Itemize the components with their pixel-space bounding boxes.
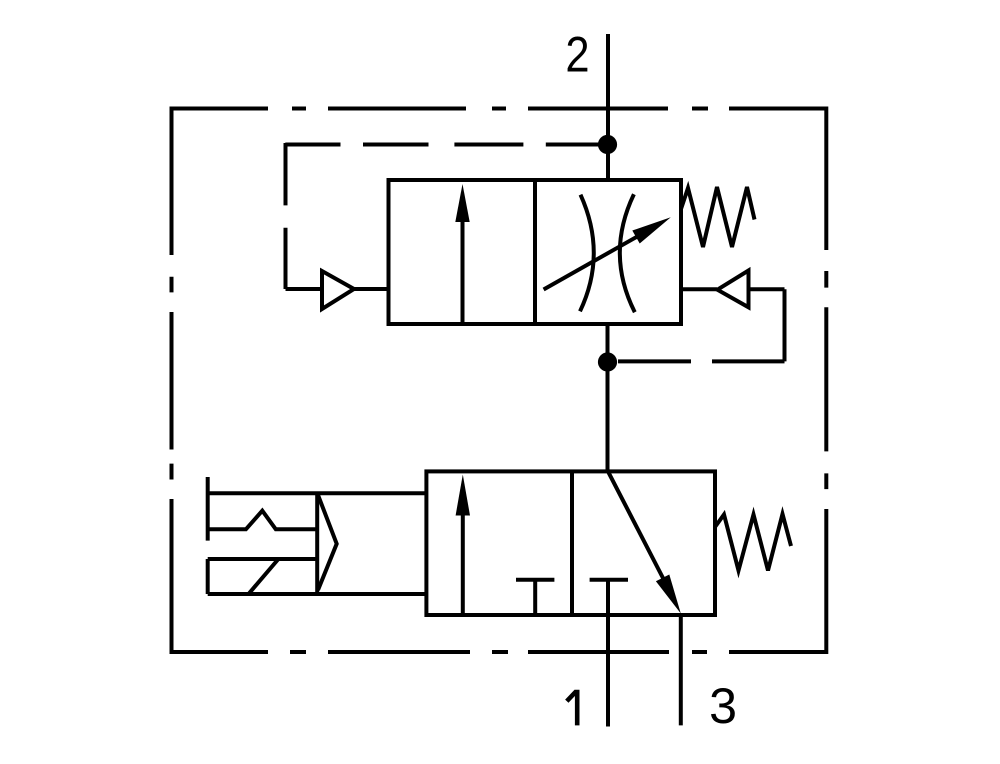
svg-text:3: 3 [709, 677, 737, 734]
pilot actuator channel line with peak [208, 511, 318, 530]
enclosure left edge (dash-dot) [170, 107, 174, 655]
port 2 line (top) [606, 34, 610, 180]
valve V1 throttle arcs [580, 194, 635, 312]
pilot actuator rail bottom [208, 592, 427, 596]
valve V2 divider [570, 471, 574, 615]
pilot line dashed vertical (left) [284, 143, 288, 289]
pilot actuator rail top [208, 491, 427, 495]
junction dot node A (on port 2 pilot tap) [598, 135, 617, 154]
pilot actuator channel line 3 [208, 557, 318, 561]
pilot dashed line to node B [618, 359, 785, 363]
valve V2 exhaust arrow (diagonal 2 to 3) [608, 471, 664, 580]
pilot actuator chevron bar [315, 493, 319, 594]
enclosure top edge (dash-dot) [172, 107, 826, 111]
port 3 line [679, 615, 683, 725]
pilot actuator chevron [318, 495, 337, 590]
valve V2 right cell blocked port T [590, 578, 628, 582]
enclosure bottom edge (dash-dot) [172, 650, 826, 654]
valve V2 left cell blocked port T [516, 580, 554, 615]
junction dot node B [598, 352, 617, 371]
valve V2 left cell flow arrow (up) [461, 508, 465, 613]
valve V2 body (3/2 valve) [426, 471, 715, 615]
wire triangle to corner [749, 289, 785, 361]
spring S1 (valve V1 return spring) [681, 187, 755, 247]
port 1 line [606, 580, 610, 727]
wire valve V1 right pilot [681, 287, 717, 291]
enclosure right edge (dash-dot) [824, 107, 828, 655]
wire port 2 between valves [606, 324, 610, 471]
valve V1 divider [533, 180, 537, 324]
pilot actuator left vertical upper [206, 477, 210, 541]
valve V1 adjustment arrow (diagonal) [544, 235, 640, 290]
pilot actuator left vertical lower [206, 559, 210, 594]
pilot triangle right (points left) [717, 271, 748, 308]
label port 1 [567, 690, 577, 726]
pilot triangle left (points right) [322, 271, 354, 309]
pilot line dashed horizontal to node A [285, 143, 598, 147]
wire pilot to left triangle [286, 287, 323, 291]
spring S2 (valve V2 return spring) [715, 514, 791, 571]
wire triangle to valve V1 [354, 287, 389, 291]
pilot actuator diagonal [249, 559, 279, 594]
valve V1 body (2/2 flow-control valve) [389, 180, 682, 324]
valve V1 left cell flow arrow (up) [461, 215, 465, 322]
svg-text:2: 2 [565, 25, 589, 82]
